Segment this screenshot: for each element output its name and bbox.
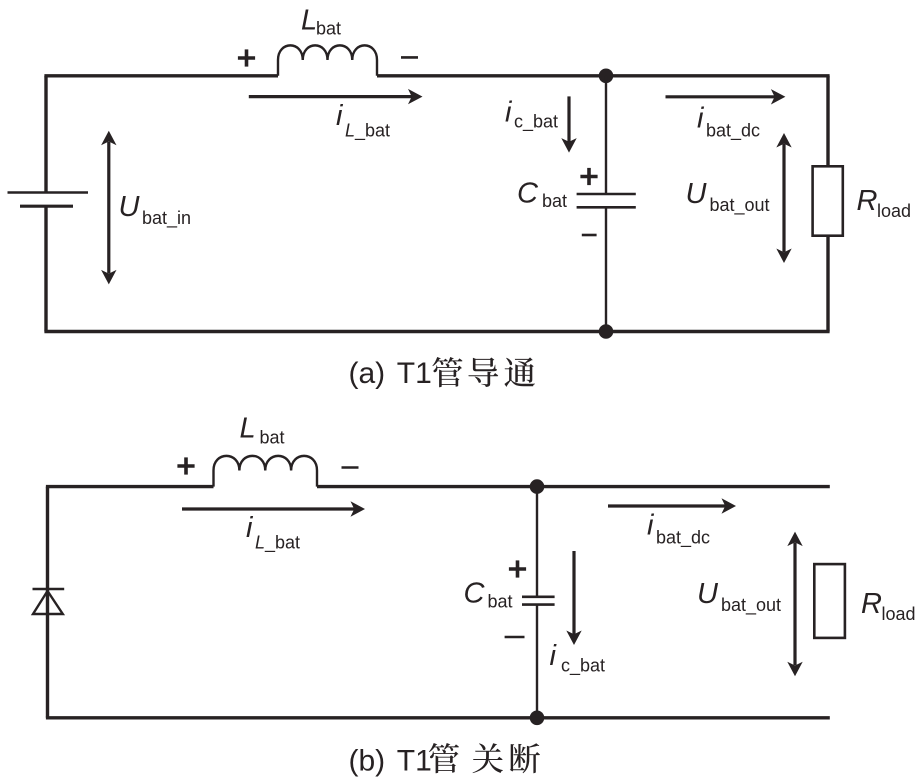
polarity + (b, capacitor) — [509, 567, 526, 571]
wire: (a) left wire lower segment — [44, 206, 47, 331]
svg-text:L: L — [240, 413, 256, 445]
caption (a) CJK 管 — [432, 357, 462, 387]
caption (a) CJK 通 — [504, 357, 535, 387]
wire: (a) capacitor branch upper — [605, 76, 607, 194]
caption (b) CJK 关 — [473, 743, 503, 773]
wire: (a) left wire upper segment — [44, 76, 47, 193]
node: junction dot (b) top — [530, 479, 545, 494]
svg-text:bat: bat — [316, 19, 341, 39]
svg-text:bat_dc: bat_dc — [656, 528, 710, 549]
wire: (a) capacitor branch lower — [605, 207, 607, 331]
svg-text:bat: bat — [260, 428, 285, 448]
svg-text:bat: bat — [488, 592, 513, 612]
svg-text:i: i — [246, 512, 254, 544]
wire: (b) left wire lower — [46, 589, 49, 718]
wire: (a) right wire upper — [826, 76, 829, 167]
battery U_bat_in source: short plate — [20, 205, 73, 208]
capacitor C_bat (a): bottom plate — [577, 206, 636, 209]
svg-text:bat_out: bat_out — [721, 595, 781, 616]
wire: (a) top rail left segment — [44, 74, 278, 77]
diode D (b): cathode bar — [33, 588, 65, 591]
svg-text:bat_in: bat_in — [142, 208, 191, 229]
polarity - (b, capacitor) — [505, 636, 525, 639]
caption (b) CJK 管 — [429, 743, 459, 773]
svg-text:R: R — [861, 588, 882, 620]
polarity + (b, inductor left) — [177, 464, 194, 468]
capacitor C_bat (b): top plate — [522, 595, 555, 598]
svg-text:load: load — [882, 604, 916, 624]
svg-text:T1: T1 — [397, 745, 432, 778]
inductor L_bat (a) — [278, 45, 377, 75]
voltage arrow U_bat_out (b, double-headed) — [793, 543, 796, 666]
inductor L_bat (b) — [214, 456, 318, 487]
polarity - (a, capacitor) — [582, 234, 597, 237]
wire: (b) bottom rail — [46, 716, 830, 719]
svg-text:L: L — [301, 5, 317, 37]
svg-text:R: R — [857, 185, 878, 217]
svg-text:c_bat: c_bat — [561, 656, 605, 677]
capacitor C_bat (b): bottom plate — [522, 603, 555, 606]
svg-text:T1: T1 — [397, 357, 432, 390]
current arrow i_c_bat (b) — [572, 551, 575, 635]
node: junction dot (a) top — [599, 69, 614, 84]
svg-text:(b): (b) — [349, 745, 386, 778]
svg-text:i: i — [505, 97, 513, 129]
wire: (a) right wire lower — [826, 236, 829, 332]
polarity - (b, inductor right) — [342, 466, 359, 469]
svg-text:i: i — [697, 102, 705, 134]
svg-text:bat: bat — [542, 191, 567, 211]
capacitor C_bat (a): top plate — [577, 193, 636, 196]
svg-text:U: U — [697, 578, 719, 610]
svg-text:U: U — [119, 191, 141, 223]
polarity + (a, capacitor) — [580, 175, 597, 179]
svg-text:C: C — [517, 178, 539, 210]
voltage arrow U_bat_out (a, double-headed) — [782, 144, 785, 252]
current arrow i_bat_dc (b) — [608, 504, 726, 507]
wire: (b) top rail right segment — [317, 485, 830, 488]
svg-text:U: U — [686, 178, 708, 210]
caption (b) CJK 断 — [510, 743, 540, 773]
battery U_bat_in source: long plate — [8, 191, 89, 194]
svg-text:L_bat: L_bat — [255, 533, 300, 554]
wire: (a) bottom rail — [44, 330, 829, 333]
svg-text:bat_out: bat_out — [710, 195, 770, 216]
current arrow i_c_bat (a) — [567, 96, 570, 142]
wire: (b) top rail left segment — [46, 485, 214, 488]
caption (a) CJK 导 — [468, 358, 498, 388]
wire: (b) left wire upper — [46, 487, 49, 589]
svg-text:L_bat: L_bat — [345, 121, 390, 142]
voltage arrow U_bat_in (double-headed) — [107, 142, 110, 274]
node: junction dot (a) bottom — [599, 324, 614, 339]
polarity + (a, inductor left) — [238, 56, 255, 60]
node: junction dot (b) bottom — [530, 711, 545, 726]
svg-text:i: i — [550, 640, 558, 672]
svg-text:i: i — [336, 100, 344, 132]
svg-text:c_bat: c_bat — [514, 112, 558, 133]
svg-text:(a): (a) — [349, 357, 386, 390]
diode D (b): anode triangle — [33, 591, 63, 614]
current arrow i_bat_dc (a) — [666, 95, 775, 98]
svg-text:C: C — [464, 578, 486, 610]
resistor R_load (a) — [813, 166, 843, 235]
wire: (b) capacitor branch upper — [536, 487, 538, 597]
current arrow i_L_bat (b) — [182, 507, 355, 510]
resistor R_load (b) — [814, 564, 845, 638]
wire: (b) capacitor branch lower — [536, 605, 538, 718]
polarity - (a, inductor right) — [401, 56, 418, 59]
svg-text:i: i — [647, 510, 655, 542]
svg-text:bat_dc: bat_dc — [706, 120, 760, 141]
current arrow i_L_bat (a) — [249, 95, 412, 98]
wire: (a) top rail right segment — [377, 74, 830, 77]
svg-text:load: load — [877, 201, 911, 221]
